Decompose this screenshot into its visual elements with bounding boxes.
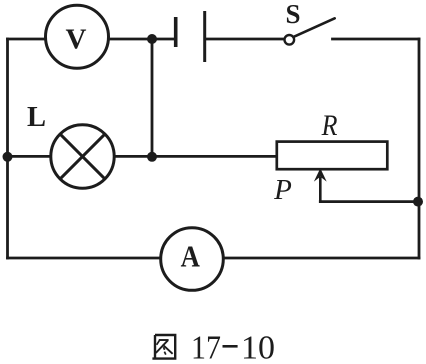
wiper P shaft [319, 177, 322, 202]
svg-text:S: S [285, 0, 300, 29]
wire right rail [418, 39, 421, 258]
wire wiper to right rail [320, 200, 419, 203]
junction node A (battery-voltmeter) [147, 34, 157, 44]
voltmeter U1 V [46, 5, 109, 68]
lamp L [51, 125, 114, 188]
label L [27, 102, 46, 133]
svg-text:A: A [181, 239, 200, 273]
switch S terminal circle [285, 35, 295, 45]
svg-text:L: L [27, 102, 46, 133]
wire top-left segment to voltmeter [8, 38, 47, 41]
svg-text:R: R [321, 109, 338, 142]
wiper P arrowhead [314, 168, 327, 181]
junction node B (middle rail / lamp row) [147, 152, 157, 162]
battery BT1 negative plate [174, 17, 178, 47]
label P [273, 174, 292, 206]
svg-text:17: 17 [191, 328, 221, 364]
label R [321, 109, 338, 142]
caption text 10 [241, 330, 275, 364]
switch S lever [294, 18, 334, 36]
caption figure character tu [152, 335, 175, 359]
wire left rail [6, 39, 9, 258]
svg-text:V: V [66, 24, 87, 56]
rheostat R body [277, 142, 388, 170]
wire switch to top-right corner [333, 38, 420, 41]
caption text 17 [191, 328, 221, 364]
wire bottom rail [8, 257, 420, 260]
wire voltmeter to battery [108, 38, 175, 41]
svg-text:P: P [273, 174, 292, 206]
wire lamp row [8, 155, 277, 158]
label S [285, 0, 300, 29]
junction node D (wiper / right rail) [413, 197, 423, 207]
svg-text:10: 10 [241, 330, 275, 364]
battery BT1 positive plate [203, 11, 206, 62]
ammeter U2 A [161, 228, 224, 291]
caption dash [223, 345, 238, 348]
junction node C (left rail / lamp row) [3, 152, 13, 162]
wire battery to switch [206, 38, 284, 41]
wire middle rail node B to lamp row [151, 39, 154, 157]
